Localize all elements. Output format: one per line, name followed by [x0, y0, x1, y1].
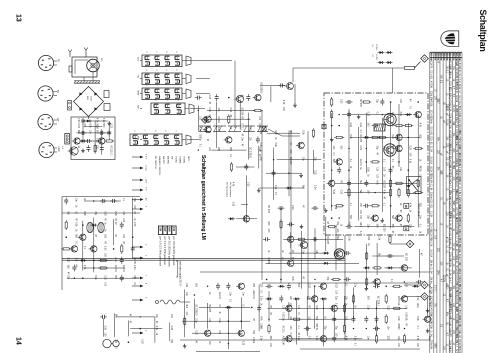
svg-text:MW: MW	[167, 227, 170, 232]
svg-text:EL 84: EL 84	[430, 146, 433, 153]
svg-text:0,047/250: 0,047/250	[449, 348, 452, 353]
svg-text:ECH 81: ECH 81	[430, 127, 433, 136]
svg-text:Si 0,1A: Si 0,1A	[455, 349, 458, 353]
svg-text:10k lin: 10k lin	[430, 117, 433, 125]
svg-text:0,22: 0,22	[307, 283, 309, 288]
svg-text:5%: 5%	[446, 137, 448, 140]
svg-text:BC 238: BC 238	[240, 108, 242, 116]
svg-text:220k 5%: 220k 5%	[430, 174, 433, 184]
svg-text:0 V: 0 V	[145, 187, 147, 191]
svg-text:ECH 81: ECH 81	[430, 70, 433, 79]
svg-text:0,22: 0,22	[386, 305, 388, 310]
svg-text:0,22: 0,22	[416, 296, 418, 301]
svg-text:BALFRY: BALFRY	[162, 156, 165, 165]
svg-text:AC151: AC151	[217, 116, 220, 124]
svg-text:2,2n: 2,2n	[217, 127, 219, 132]
svg-text:Si 0,1A: Si 0,1A	[430, 250, 433, 258]
svg-text:+ 12V: + 12V	[145, 177, 147, 183]
svg-text:0,22: 0,22	[247, 182, 249, 187]
svg-text:Schaltplan gezeichnet in Stell: Schaltplan gezeichnet in Stellung LM	[200, 155, 206, 240]
svg-text:AC151: AC151	[122, 265, 125, 273]
svg-text:AC151: AC151	[252, 292, 255, 300]
svg-text:2,2n: 2,2n	[359, 123, 361, 128]
svg-text:0,22: 0,22	[339, 99, 341, 104]
svg-text:0,22: 0,22	[103, 211, 105, 216]
svg-text:EL 84: EL 84	[449, 270, 452, 277]
svg-text:0,22: 0,22	[242, 341, 244, 346]
svg-text:Dr 4,7: Dr 4,7	[455, 341, 458, 348]
svg-text:5%: 5%	[433, 303, 435, 306]
svg-text:10k lin: 10k lin	[430, 277, 433, 285]
svg-text:DR. SWITCH: DR. SWITCH	[154, 156, 156, 169]
svg-text:2,2n: 2,2n	[218, 318, 220, 323]
svg-text:5%: 5%	[452, 133, 454, 136]
svg-text:0,22: 0,22	[334, 283, 336, 288]
svg-text:TA: TA	[57, 59, 60, 62]
svg-text:2,2n: 2,2n	[347, 236, 349, 241]
svg-text:2,2n: 2,2n	[282, 316, 284, 321]
svg-text:ECH 81: ECH 81	[455, 207, 458, 216]
svg-text:Netz: Netz	[137, 57, 140, 62]
svg-text:0,22: 0,22	[229, 108, 231, 113]
svg-text:EL 84: EL 84	[449, 220, 452, 227]
svg-text:AF106: AF106	[430, 287, 433, 295]
svg-text:ECH 81: ECH 81	[455, 119, 458, 128]
svg-text:UKW: UKW	[57, 146, 60, 152]
svg-text:AF106: AF106	[430, 322, 433, 330]
svg-text:BC 238: BC 238	[208, 304, 210, 312]
svg-text:5%: 5%	[440, 75, 442, 78]
svg-text:Si 0,1A: Si 0,1A	[430, 156, 433, 164]
svg-text:2,2n: 2,2n	[259, 336, 261, 341]
svg-text:AF106: AF106	[455, 297, 458, 305]
svg-text:AC151: AC151	[218, 292, 221, 300]
svg-text:BC 238: BC 238	[359, 134, 361, 142]
svg-text:E 250: E 250	[375, 45, 377, 51]
svg-text:0,22: 0,22	[66, 257, 68, 262]
svg-text:10k lin: 10k lin	[455, 198, 458, 206]
svg-text:10k lin: 10k lin	[449, 72, 452, 80]
svg-text:10k lin: 10k lin	[455, 256, 458, 264]
svg-text:Dr 4,7: Dr 4,7	[449, 182, 452, 189]
svg-text:AF106: AF106	[449, 260, 452, 268]
svg-text:Si 0,1A: Si 0,1A	[430, 239, 433, 247]
svg-text:10k lin: 10k lin	[430, 259, 433, 267]
svg-text:U met: U met	[145, 165, 148, 171]
svg-text:AF106: AF106	[430, 81, 433, 89]
svg-text:Dr 4,7: Dr 4,7	[449, 277, 452, 284]
svg-text:5%: 5%	[452, 165, 454, 168]
svg-text:0,22: 0,22	[359, 146, 361, 151]
svg-text:AC151: AC151	[133, 257, 136, 265]
svg-text:EL 84: EL 84	[430, 268, 433, 275]
svg-text:AF106: AF106	[430, 99, 433, 107]
svg-text:EL 84: EL 84	[449, 243, 452, 250]
svg-text:AC151: AC151	[359, 159, 362, 167]
svg-text:EL 84: EL 84	[430, 184, 433, 191]
svg-text:po= 150-300 kHz gemessen: po= 150-300 kHz gemessen	[172, 237, 174, 267]
svg-text:TW: TW	[170, 156, 172, 159]
svg-text:0,22: 0,22	[170, 326, 172, 331]
svg-text:BC 238: BC 238	[383, 224, 385, 232]
svg-text:0,22: 0,22	[140, 339, 142, 344]
svg-text:BC 238: BC 238	[405, 253, 407, 261]
svg-text:2,2n: 2,2n	[397, 316, 399, 321]
svg-text:10k lin: 10k lin	[455, 87, 458, 95]
svg-text:0,22: 0,22	[332, 190, 334, 195]
svg-text:5%: 5%	[437, 167, 439, 170]
svg-text:0,22: 0,22	[315, 336, 317, 341]
svg-text:LW: LW	[172, 227, 175, 231]
svg-text:AC151: AC151	[282, 326, 285, 334]
svg-text:2,2n: 2,2n	[297, 336, 299, 341]
svg-text:2,2n: 2,2n	[259, 142, 261, 147]
svg-text:2,2n: 2,2n	[195, 318, 197, 323]
svg-text:alle Spannungen: alle Spannungen	[229, 182, 231, 197]
svg-text:Schaltplan: Schaltplan	[478, 10, 488, 52]
svg-text:AF106: AF106	[449, 122, 452, 130]
svg-text:BC 238: BC 238	[267, 205, 269, 213]
svg-text:- 9V: - 9V	[145, 197, 147, 202]
svg-text:RAILWEG. SWITCH: RAILWEG. SWITCH	[158, 156, 161, 175]
svg-text:0,22: 0,22	[367, 112, 369, 117]
svg-text:po= 5,9-6,3 MHz gemessen: po= 5,9-6,3 MHz gemessen	[163, 237, 165, 266]
svg-text:ECH 81: ECH 81	[430, 199, 433, 208]
svg-text:BC 238: BC 238	[326, 236, 328, 244]
svg-text:SW: SW	[158, 227, 161, 232]
svg-text:0,22: 0,22	[103, 275, 105, 280]
svg-text:14: 14	[15, 337, 22, 345]
svg-text:2,2n: 2,2n	[208, 108, 210, 113]
svg-text:NETZ: NETZ	[187, 156, 189, 162]
svg-text:2,2n: 2,2n	[367, 305, 369, 310]
svg-text:BC147B: BC147B	[455, 265, 458, 274]
svg-text:2,2n: 2,2n	[291, 205, 293, 210]
svg-text:13: 13	[15, 14, 22, 22]
svg-text:BC147B: BC147B	[430, 59, 433, 68]
svg-text:U (LW): U (LW)	[175, 156, 177, 163]
svg-text:EL 84: EL 84	[430, 211, 433, 218]
svg-text:0,22: 0,22	[77, 123, 79, 128]
svg-text:0,22: 0,22	[95, 138, 97, 143]
svg-text:BC 238: BC 238	[359, 99, 361, 107]
svg-text:ECH 81: ECH 81	[455, 144, 458, 153]
svg-text:2,2n: 2,2n	[259, 296, 261, 301]
svg-text:2,2n: 2,2n	[133, 265, 135, 270]
svg-text:5%: 5%	[452, 66, 454, 69]
svg-text:0,22: 0,22	[103, 246, 105, 251]
svg-text:Dr 4,7: Dr 4,7	[455, 233, 458, 240]
svg-text:KW: KW	[163, 227, 166, 232]
svg-text:5%: 5%	[443, 279, 445, 282]
svg-text:ECH 81: ECH 81	[430, 136, 433, 145]
svg-text:BALFED: BALFED	[166, 156, 169, 165]
svg-text:po= 5,8-15,5 MHz gemessen: po= 5,8-15,5 MHz gemessen	[158, 237, 160, 267]
svg-text:2,2n: 2,2n	[114, 257, 116, 262]
svg-text:TB: TB	[56, 90, 59, 93]
svg-text:2,2n: 2,2n	[314, 185, 316, 190]
svg-text:U (KW): U (KW)	[183, 156, 185, 163]
svg-text:BC 238: BC 238	[289, 157, 291, 165]
svg-text:2,2n: 2,2n	[349, 123, 351, 128]
svg-text:Si 0,1A: Si 0,1A	[449, 104, 452, 112]
svg-text:0,22: 0,22	[314, 170, 316, 175]
svg-text:E 250: E 250	[375, 55, 377, 61]
svg-text:alle Spannungen: alle Spannungen	[226, 182, 228, 197]
svg-text:0,22: 0,22	[339, 190, 341, 195]
svg-text:0,22: 0,22	[109, 123, 111, 128]
svg-text:po= 510-1620 kHz gemessen: po= 510-1620 kHz gemessen	[167, 237, 169, 268]
svg-text:U (MW): U (MW)	[179, 156, 181, 163]
svg-text:EL 84: EL 84	[430, 331, 433, 338]
svg-text:220k 5%: 220k 5%	[430, 340, 433, 350]
svg-text:0,22: 0,22	[232, 202, 234, 207]
svg-text:6,3 V: 6,3 V	[145, 154, 147, 160]
svg-text:and mains supply 220 V~: and mains supply 220 V~	[179, 261, 181, 288]
svg-text:BC 238: BC 238	[383, 180, 385, 188]
svg-text:C350: C350	[90, 96, 92, 102]
svg-text:AC151: AC151	[114, 265, 117, 273]
svg-text:AF106: AF106	[455, 95, 458, 103]
svg-text:0,22: 0,22	[208, 95, 210, 100]
svg-text:5%: 5%	[452, 286, 454, 289]
svg-text:0,22: 0,22	[195, 330, 197, 335]
svg-text:2,2n: 2,2n	[114, 211, 116, 216]
svg-text:2,2n: 2,2n	[354, 336, 356, 341]
